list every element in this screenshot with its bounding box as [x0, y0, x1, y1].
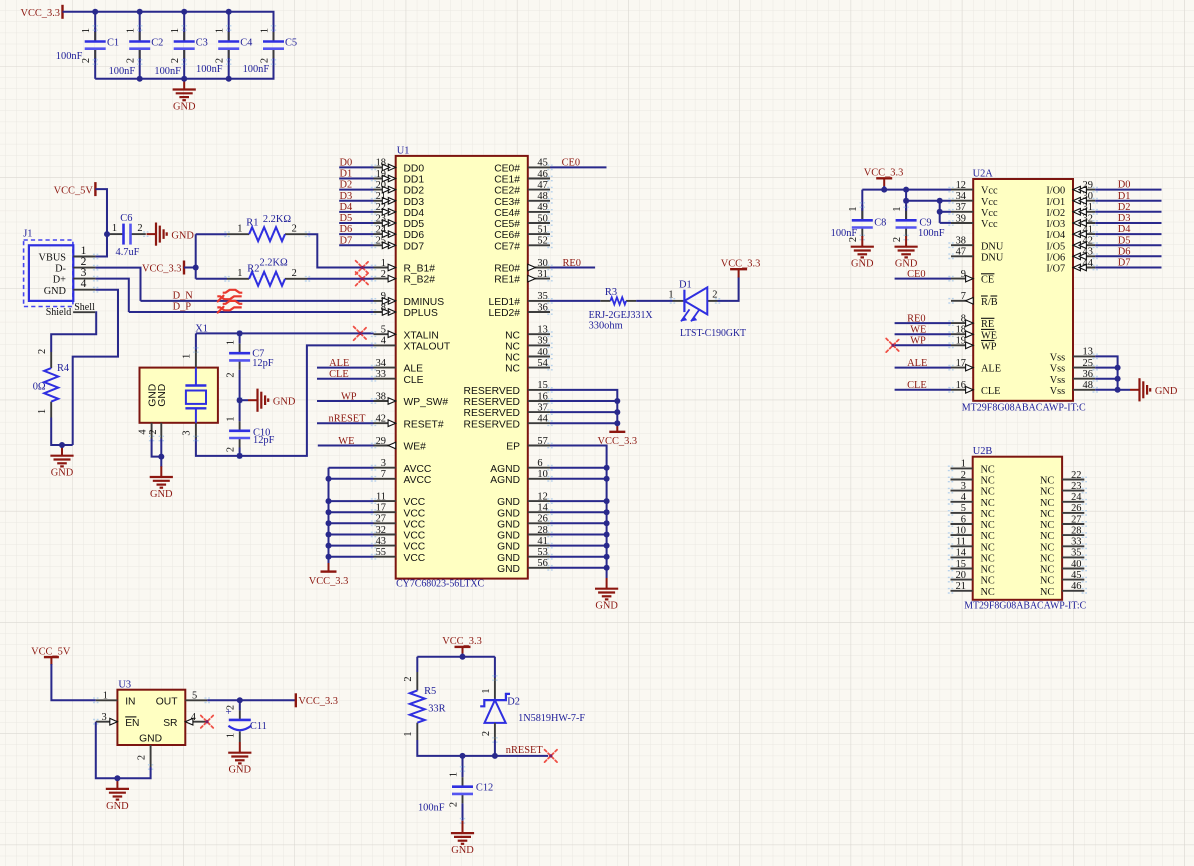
svg-text:RE0: RE0: [907, 314, 925, 325]
svg-text:2: 2: [226, 705, 237, 710]
svg-text:NC: NC: [981, 487, 995, 498]
svg-text:10: 10: [956, 525, 966, 536]
svg-text:SR: SR: [163, 718, 177, 729]
svg-text:NC: NC: [505, 364, 520, 375]
svg-text:18: 18: [376, 158, 386, 169]
svg-text:nRESET: nRESET: [329, 414, 367, 425]
svg-text:D3: D3: [1118, 213, 1131, 224]
node D0: [340, 158, 353, 169]
svg-text:WP_SW#: WP_SW#: [404, 397, 449, 408]
svg-text:CE2#: CE2#: [494, 186, 520, 197]
svg-text:NC: NC: [505, 330, 520, 341]
junction: [326, 509, 332, 515]
no-ERC marker SR: [201, 716, 213, 728]
svg-text:C2: C2: [151, 37, 163, 48]
svg-text:NC: NC: [981, 542, 995, 553]
svg-text:D1: D1: [1118, 191, 1131, 202]
wire XTALOUT net: [196, 345, 374, 456]
svg-text:WE: WE: [910, 325, 926, 336]
svg-text:DNU: DNU: [981, 241, 1004, 252]
resistor R1 2.2KOhm: [224, 214, 310, 241]
svg-text:44: 44: [1083, 258, 1094, 269]
svg-text:R_B1#: R_B1#: [404, 264, 436, 275]
svg-text:DPLUS: DPLUS: [404, 308, 438, 319]
resistor R4 0 Ohm: [33, 349, 70, 418]
svg-text:2: 2: [148, 429, 159, 434]
svg-text:13: 13: [537, 325, 547, 336]
svg-text:45: 45: [537, 158, 547, 169]
svg-text:GND: GND: [44, 286, 67, 297]
svg-text:12pF: 12pF: [252, 358, 274, 369]
svg-text:R_B2#: R_B2#: [404, 275, 436, 286]
capacitor C12: [418, 767, 493, 823]
wire nRESET rail: [417, 740, 548, 756]
svg-text:330ohm: 330ohm: [589, 320, 623, 331]
wire RESERVED bus: [550, 390, 617, 423]
svg-text:17: 17: [956, 358, 966, 369]
svg-text:21: 21: [956, 581, 966, 592]
svg-text:LED2#: LED2#: [489, 308, 521, 319]
node D1: [340, 169, 353, 180]
wire: [196, 278, 227, 280]
wire LED1#: [550, 300, 600, 302]
svg-text:40: 40: [537, 347, 547, 358]
junction: [226, 9, 232, 15]
wire: [550, 567, 607, 569]
svg-text:VBUS: VBUS: [39, 253, 67, 264]
wire: [1095, 267, 1161, 269]
svg-text:NC: NC: [1040, 531, 1054, 542]
svg-text:Vcc: Vcc: [981, 186, 998, 197]
svg-text:GND: GND: [595, 601, 618, 612]
svg-text:11: 11: [376, 491, 386, 502]
svg-text:1: 1: [215, 28, 226, 33]
wire: [228, 48, 230, 79]
svg-text:EP: EP: [506, 442, 520, 453]
ground under C11: [228, 742, 251, 776]
power port VCC_3.3 at U3 out: [296, 693, 338, 707]
svg-text:100nF: 100nF: [243, 64, 270, 75]
svg-text:VCC: VCC: [404, 542, 426, 553]
svg-text:RESERVED: RESERVED: [464, 408, 520, 419]
svg-text:36: 36: [537, 302, 547, 313]
diode D2 1N5819HW-7-F schottky: [480, 676, 585, 742]
node WE: [910, 325, 926, 336]
svg-text:RE0#: RE0#: [494, 264, 520, 275]
svg-text:VCC_3.3: VCC_3.3: [309, 576, 349, 587]
svg-text:56: 56: [537, 558, 547, 569]
wire: [94, 48, 96, 79]
svg-text:4: 4: [137, 429, 148, 435]
wire D_N: [141, 300, 374, 302]
svg-text:C12: C12: [476, 782, 493, 793]
svg-text:D_P: D_P: [173, 302, 192, 313]
svg-text:16: 16: [537, 391, 547, 402]
svg-text:GND: GND: [150, 489, 173, 500]
svg-text:CY7C68023-56LTXC: CY7C68023-56LTXC: [396, 579, 484, 590]
svg-text:DD7: DD7: [404, 241, 425, 252]
svg-text:C8: C8: [874, 217, 886, 228]
svg-text:4.7uF: 4.7uF: [116, 247, 140, 258]
svg-text:31: 31: [537, 269, 547, 280]
wire: [317, 378, 374, 380]
svg-text:13: 13: [1083, 347, 1093, 358]
svg-text:33: 33: [376, 369, 386, 380]
junction: [1115, 387, 1121, 393]
svg-text:WE#: WE#: [404, 442, 427, 453]
wire: [329, 511, 374, 513]
wire Shell to R4: [51, 312, 96, 352]
capacitor C5: [243, 26, 298, 75]
svg-text:GND: GND: [139, 733, 162, 744]
wire RE0: [550, 267, 595, 269]
wire: [1095, 189, 1161, 191]
svg-text:DD6: DD6: [404, 230, 425, 241]
svg-text:GND: GND: [497, 497, 520, 508]
node D2: [1118, 202, 1131, 213]
svg-text:12: 12: [956, 180, 966, 191]
node D5: [1118, 235, 1131, 246]
wire: [329, 534, 374, 536]
svg-text:CLE: CLE: [981, 386, 1000, 397]
node D5: [340, 213, 353, 224]
svg-text:2: 2: [448, 802, 459, 807]
node nRESET: [506, 745, 544, 756]
wire: [339, 166, 373, 168]
ground under C8: [851, 236, 874, 270]
wire: [317, 367, 374, 369]
node D6: [1118, 246, 1131, 257]
svg-text:5: 5: [192, 691, 197, 702]
svg-text:EN: EN: [125, 718, 139, 729]
svg-text:I/O2: I/O2: [1046, 208, 1065, 219]
wire: [339, 200, 373, 202]
svg-text:CE1#: CE1#: [494, 175, 520, 186]
wire: [550, 467, 607, 469]
no-ERC marker: [356, 261, 370, 275]
svg-text:DD1: DD1: [404, 175, 425, 186]
wire: [636, 300, 672, 302]
wire R1 to R_B1#: [308, 234, 374, 267]
svg-text:GND: GND: [497, 564, 520, 575]
svg-text:ALE: ALE: [329, 358, 349, 369]
wire: [160, 439, 162, 457]
wire R4 to GND rail: [51, 418, 72, 446]
svg-text:23: 23: [1071, 481, 1081, 492]
svg-text:D6: D6: [340, 224, 353, 235]
svg-text:I/O3: I/O3: [1046, 219, 1065, 230]
svg-text:D_N: D_N: [173, 291, 194, 302]
wire: [196, 233, 227, 235]
crystal X1: [137, 324, 218, 441]
capacitor C11 polarized: [225, 700, 266, 742]
junction: [193, 265, 199, 271]
connector J1: [23, 228, 98, 318]
svg-text:1: 1: [103, 691, 108, 702]
svg-text:D5: D5: [340, 213, 353, 224]
ground under U1: [595, 578, 618, 612]
svg-text:GND: GND: [273, 397, 296, 408]
svg-text:2: 2: [136, 755, 147, 760]
wire D+ to D_P: [96, 279, 129, 312]
svg-text:D4: D4: [340, 202, 354, 213]
svg-text:4: 4: [191, 712, 197, 723]
node D3: [1118, 213, 1131, 224]
svg-text:1: 1: [170, 28, 181, 33]
wire: [905, 190, 907, 221]
svg-text:ALE: ALE: [981, 364, 1001, 375]
svg-text:14: 14: [537, 503, 548, 514]
svg-text:3: 3: [381, 458, 386, 469]
capacitor C10: [225, 398, 274, 458]
svg-text:D2: D2: [1118, 202, 1131, 213]
svg-text:1: 1: [259, 28, 270, 33]
svg-text:Vcc: Vcc: [981, 197, 998, 208]
svg-text:2: 2: [892, 237, 903, 242]
node D0: [1118, 180, 1131, 191]
svg-text:GND: GND: [451, 845, 474, 856]
svg-text:29: 29: [376, 436, 386, 447]
svg-text:RE: RE: [981, 319, 994, 330]
junction: [614, 398, 620, 404]
wire: [339, 222, 373, 224]
ground right of U2A: [1130, 378, 1178, 401]
IC U2B MT29F8G08ABACAWP-IT:C: [948, 446, 1087, 612]
svg-text:19: 19: [376, 169, 386, 180]
junction: [937, 198, 943, 204]
node WP: [341, 391, 357, 402]
junction: [237, 397, 243, 403]
svg-text:NC: NC: [1040, 587, 1054, 598]
svg-text:MT29F8G08ABACAWP-IT:C: MT29F8G08ABACAWP-IT:C: [964, 601, 1086, 612]
wire VCC_3.3 top rail: [63, 12, 274, 42]
svg-text:ALE: ALE: [907, 358, 927, 369]
resistor R3 ERJ-2GEJ331X 330ohm: [589, 287, 653, 331]
svg-text:CE7#: CE7#: [494, 241, 520, 252]
junction: [114, 775, 120, 781]
junction: [326, 554, 332, 560]
svg-text:XTALIN: XTALIN: [404, 330, 439, 341]
svg-text:33: 33: [1071, 537, 1081, 548]
svg-text:VCC: VCC: [404, 531, 426, 542]
IC U2A MT29F8G08ABACAWP-IT:C: [948, 168, 1098, 413]
wire: [940, 211, 951, 213]
wire U3 OUT: [207, 699, 295, 701]
svg-text:R/B: R/B: [981, 297, 998, 308]
svg-text:2: 2: [961, 470, 966, 481]
svg-text:CLE: CLE: [907, 380, 927, 391]
svg-text:D+: D+: [53, 275, 66, 286]
svg-text:1: 1: [892, 206, 903, 211]
svg-text:4: 4: [81, 278, 87, 290]
svg-text:39: 39: [956, 213, 966, 224]
svg-text:57: 57: [537, 436, 547, 447]
wire RE0: [895, 322, 951, 324]
svg-text:1N5819HW-7-F: 1N5819HW-7-F: [518, 713, 585, 724]
svg-text:NC: NC: [505, 342, 520, 353]
svg-text:NC: NC: [1040, 509, 1054, 520]
svg-text:24: 24: [1071, 492, 1082, 503]
wire: [317, 400, 374, 402]
svg-text:CE0#: CE0#: [494, 164, 520, 175]
svg-text:1: 1: [237, 268, 242, 279]
wire: [139, 12, 141, 42]
ground under C12: [451, 821, 474, 856]
wire: [329, 545, 374, 547]
svg-text:24: 24: [376, 224, 387, 235]
svg-text:D7: D7: [1118, 258, 1131, 269]
svg-text:54: 54: [537, 358, 548, 369]
svg-text:2: 2: [292, 268, 297, 279]
wire: [228, 12, 230, 42]
node D6: [340, 224, 353, 235]
svg-text:D2: D2: [507, 697, 520, 708]
wire: [550, 400, 617, 402]
wire: [329, 500, 374, 502]
svg-text:49: 49: [537, 202, 547, 213]
node ALE: [907, 358, 927, 369]
wire: [1095, 389, 1117, 391]
svg-text:NC: NC: [981, 554, 995, 565]
svg-text:VCC: VCC: [404, 553, 426, 564]
ground under X1: [150, 466, 173, 500]
no-ERC marker WP: [886, 339, 900, 353]
junction: [614, 409, 620, 415]
svg-text:NC: NC: [1040, 520, 1054, 531]
svg-text:CE3#: CE3#: [494, 197, 520, 208]
svg-text:2: 2: [403, 676, 414, 681]
svg-text:12pF: 12pF: [253, 435, 275, 446]
svg-text:D1: D1: [679, 280, 692, 291]
resistor R5 33R: [403, 672, 446, 740]
svg-text:48: 48: [1083, 380, 1093, 391]
svg-text:GND: GND: [1155, 386, 1178, 397]
svg-text:38: 38: [376, 391, 386, 402]
node CE0: [907, 269, 925, 280]
wire CLE: [895, 389, 951, 391]
ground under cap bank: [173, 79, 196, 113]
svg-text:VCC: VCC: [404, 497, 426, 508]
wire XTALIN net: [196, 332, 374, 334]
wire Vcc rail2: [906, 200, 951, 202]
svg-text:20: 20: [376, 180, 386, 191]
wire: [329, 467, 374, 469]
wire: [550, 500, 607, 502]
svg-text:11: 11: [956, 537, 966, 548]
svg-text:D1: D1: [340, 169, 353, 180]
svg-text:16: 16: [956, 380, 966, 391]
svg-text:2.2KΩ: 2.2KΩ: [263, 214, 291, 225]
svg-text:47: 47: [956, 247, 966, 258]
svg-text:C6: C6: [120, 213, 132, 224]
junction: [460, 654, 466, 660]
svg-text:C5: C5: [285, 37, 297, 48]
wire: [416, 657, 418, 672]
svg-text:X1: X1: [195, 324, 208, 335]
node D3: [340, 191, 353, 202]
svg-text:D3: D3: [340, 191, 353, 202]
svg-text:GND: GND: [171, 230, 194, 241]
svg-text:Vss: Vss: [1050, 353, 1065, 364]
svg-text:41: 41: [537, 536, 547, 547]
wire: [240, 399, 248, 401]
wire: [550, 422, 617, 424]
power port VCC_3.3 top-left: [20, 5, 62, 19]
svg-text:WE: WE: [338, 436, 354, 447]
wire: [317, 422, 374, 424]
svg-text:VCC_5V: VCC_5V: [54, 185, 94, 196]
svg-text:Vss: Vss: [1050, 375, 1065, 386]
wire: [494, 740, 496, 756]
junction: [326, 520, 332, 526]
svg-text:48: 48: [537, 191, 547, 202]
junction: [604, 498, 610, 504]
svg-text:1: 1: [448, 772, 459, 777]
svg-text:NC: NC: [981, 531, 995, 542]
wire VCC to R1/R2: [195, 234, 197, 279]
node WP: [910, 336, 926, 347]
svg-text:VCC: VCC: [404, 508, 426, 519]
svg-text:28: 28: [537, 525, 547, 536]
svg-text:1: 1: [37, 409, 48, 414]
svg-text:100nF: 100nF: [109, 66, 136, 77]
junction: [604, 509, 610, 515]
wire: [195, 333, 197, 352]
svg-text:29: 29: [1083, 180, 1093, 191]
node D4: [1118, 224, 1132, 235]
svg-text:7: 7: [961, 291, 966, 302]
wire: [339, 244, 373, 246]
wire: [550, 411, 617, 413]
svg-text:2: 2: [225, 447, 236, 452]
junction: [181, 76, 187, 82]
svg-text:19: 19: [956, 336, 966, 347]
svg-text:NC: NC: [981, 476, 995, 487]
wire: [184, 267, 196, 269]
svg-text:22: 22: [376, 202, 386, 213]
svg-text:Vcc: Vcc: [981, 219, 998, 230]
svg-text:C1: C1: [107, 37, 119, 48]
wire CE0: [895, 278, 951, 280]
ground under R4: [50, 445, 73, 479]
junction: [326, 532, 332, 538]
ground right of C7: [248, 389, 296, 412]
svg-text:1: 1: [481, 688, 492, 693]
svg-text:AVCC: AVCC: [404, 475, 432, 486]
node D4: [340, 202, 354, 213]
svg-text:LTST-C190GKT: LTST-C190GKT: [680, 328, 747, 339]
svg-text:CE6#: CE6#: [494, 230, 520, 241]
svg-text:D7: D7: [340, 235, 353, 246]
wire D_P: [129, 311, 374, 313]
svg-text:37: 37: [537, 402, 547, 413]
power port VCC_5V: [54, 182, 96, 196]
svg-text:RESERVED: RESERVED: [464, 386, 520, 397]
svg-text:25: 25: [1083, 358, 1093, 369]
svg-text:50: 50: [537, 213, 547, 224]
resistor R2 2.2KOhm: [224, 257, 310, 286]
svg-text:100nF: 100nF: [831, 228, 858, 239]
svg-text:nRESET: nRESET: [506, 745, 544, 756]
wire: [94, 12, 96, 42]
svg-text:52: 52: [537, 236, 547, 247]
power port VCC_5V bottom-left: [31, 646, 71, 665]
svg-text:AGND: AGND: [490, 464, 520, 475]
node WE: [338, 436, 354, 447]
svg-text:NC: NC: [981, 465, 995, 476]
svg-text:DD4: DD4: [404, 208, 425, 219]
svg-text:U2B: U2B: [973, 446, 993, 457]
